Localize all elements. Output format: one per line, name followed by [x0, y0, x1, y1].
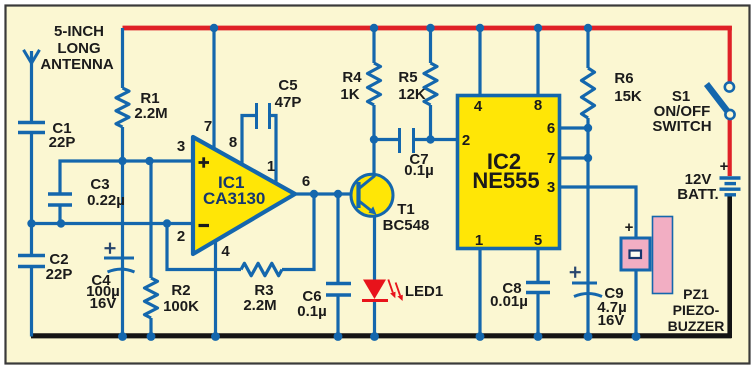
- wire output row pin6: [294, 192, 356, 195]
- svg-text:PZ1: PZ1: [683, 286, 709, 302]
- wire IC2 pin4 to rail: [478, 28, 481, 96]
- wire C7 to IC2 pin2: [414, 138, 459, 141]
- svg-text:LONG: LONG: [57, 40, 100, 57]
- svg-text:3: 3: [177, 138, 185, 155]
- pin number labels: [177, 97, 555, 260]
- svg-text:ANTENNA: ANTENNA: [40, 56, 113, 73]
- wire C3 bottom to pin2 row: [58, 205, 61, 224]
- battery B1: [720, 178, 741, 195]
- svg-text:2: 2: [462, 132, 470, 149]
- wire C2 to ground: [30, 267, 33, 337]
- svg-text:8: 8: [534, 97, 542, 114]
- wire pin3 row to C4: [121, 161, 124, 337]
- resistor R5: [424, 28, 437, 140]
- wire pin2 row: [32, 222, 196, 225]
- svg-text:100K: 100K: [163, 298, 199, 315]
- svg-text:T1: T1: [397, 201, 415, 218]
- wire IC2 pin8 to rail: [536, 28, 539, 96]
- wire pin2 to R3 riser: [167, 224, 241, 270]
- svg-text:16V: 16V: [90, 295, 117, 312]
- svg-text:6: 6: [302, 173, 310, 190]
- wire red segment switch to battery: [728, 119, 732, 177]
- svg-text:8: 8: [229, 134, 237, 151]
- svg-text:1: 1: [267, 158, 275, 175]
- svg-text:1K: 1K: [340, 86, 359, 103]
- svg-text:C3: C3: [90, 176, 109, 193]
- wire piezo to ground: [634, 270, 637, 337]
- wire collector: [372, 140, 375, 177]
- resistor R3: [241, 263, 282, 275]
- svg-text:4: 4: [221, 243, 230, 260]
- svg-text:+: +: [720, 158, 729, 175]
- resistor R4: [368, 28, 381, 141]
- svg-text:NE555: NE555: [472, 168, 539, 193]
- piezo buzzer PZ1: [621, 217, 673, 294]
- svg-text:BUZZER: BUZZER: [668, 318, 725, 334]
- wire IC1 pin4 to ground: [214, 240, 217, 337]
- resistor R2: [145, 161, 158, 337]
- wire +V red rail with right corner down to switch: [123, 26, 732, 31]
- svg-text:+: +: [625, 219, 634, 236]
- resistor R6: [582, 28, 595, 337]
- capacitor C8: [526, 283, 550, 293]
- svg-text:5-INCH: 5-INCH: [54, 23, 104, 40]
- wire IC2 pin5 to C8: [536, 248, 539, 283]
- LED1: [362, 280, 403, 302]
- svg-text:47P: 47P: [275, 94, 302, 111]
- wire R3 to output: [282, 194, 314, 270]
- svg-text:CA3130: CA3130: [203, 189, 265, 208]
- svg-text:SWITCH: SWITCH: [652, 118, 711, 135]
- svg-text:BC548: BC548: [383, 217, 430, 234]
- svg-text:0.01µ: 0.01µ: [490, 293, 528, 310]
- svg-text:3: 3: [547, 179, 555, 196]
- LED1 to ground wire: [373, 299, 376, 337]
- svg-text:16V: 16V: [598, 312, 625, 329]
- svg-text:4: 4: [474, 98, 483, 115]
- IC2 NE555 box: [458, 96, 560, 249]
- svg-text:R2: R2: [171, 282, 190, 299]
- svg-text:0.1µ: 0.1µ: [404, 162, 434, 179]
- resistor R1: [116, 28, 129, 161]
- antenna: [24, 50, 40, 122]
- svg-text:22P: 22P: [49, 134, 76, 151]
- svg-text:15K: 15K: [614, 88, 642, 105]
- svg-text:BATT.: BATT.: [677, 186, 718, 203]
- svg-text:C5: C5: [278, 77, 297, 94]
- wire IC1 pin8 to C5: [242, 116, 255, 167]
- svg-text:6: 6: [547, 120, 555, 137]
- switch S1: [707, 82, 735, 119]
- svg-text:LED1: LED1: [405, 283, 443, 300]
- svg-text:R5: R5: [398, 69, 417, 86]
- IC2 text: [472, 149, 539, 193]
- svg-text:7: 7: [547, 150, 555, 167]
- op-amp IC1: [193, 137, 295, 254]
- wire pin3 row: [60, 161, 193, 194]
- svg-text:2: 2: [177, 228, 185, 245]
- svg-text:1: 1: [475, 232, 483, 249]
- capacitor C3: [48, 194, 72, 205]
- svg-text:R4: R4: [342, 69, 362, 86]
- wire C6 to ground: [336, 194, 339, 283]
- svg-text:12K: 12K: [398, 86, 426, 103]
- capacitor C4 electrolytic: [104, 243, 135, 272]
- wire IC2 pin7: [559, 156, 588, 159]
- wire IC2 pin3 to piezo: [559, 187, 636, 238]
- transistor Q T1: [351, 174, 393, 216]
- wire C5 to IC1 pin1: [271, 116, 276, 185]
- capacitor C6: [326, 284, 351, 296]
- capacitor C9 electrolytic: [570, 267, 602, 297]
- svg-text:5: 5: [534, 232, 542, 249]
- svg-text:R6: R6: [614, 70, 633, 87]
- capacitor C2: [18, 256, 45, 267]
- wire C6 bottom to rail: [336, 295, 339, 337]
- svg-text:2.2M: 2.2M: [134, 105, 167, 122]
- ground rail black bottom: [31, 333, 732, 338]
- svg-text:22P: 22P: [46, 266, 73, 283]
- wire emitter to LED: [373, 214, 376, 281]
- capacitor C7: [400, 128, 414, 153]
- wire C1 to pin2 row: [30, 133, 33, 256]
- wire IC2 pin6: [559, 126, 588, 129]
- wire collector row to C7: [374, 138, 400, 141]
- wire C8 to ground: [536, 293, 539, 337]
- capacitor C5: [257, 103, 270, 129]
- svg-text:PIEZO-: PIEZO-: [673, 302, 720, 318]
- wire IC1 pin7 to rail: [212, 28, 215, 150]
- svg-text:7: 7: [204, 118, 212, 135]
- svg-text:0.22µ: 0.22µ: [87, 192, 125, 209]
- svg-text:2.2M: 2.2M: [243, 297, 276, 314]
- wire black battery to ground rail: [727, 197, 732, 339]
- svg-text:0.1µ: 0.1µ: [297, 303, 327, 320]
- capacitor C1: [18, 123, 45, 133]
- wire IC2 pin1 to ground: [478, 248, 481, 337]
